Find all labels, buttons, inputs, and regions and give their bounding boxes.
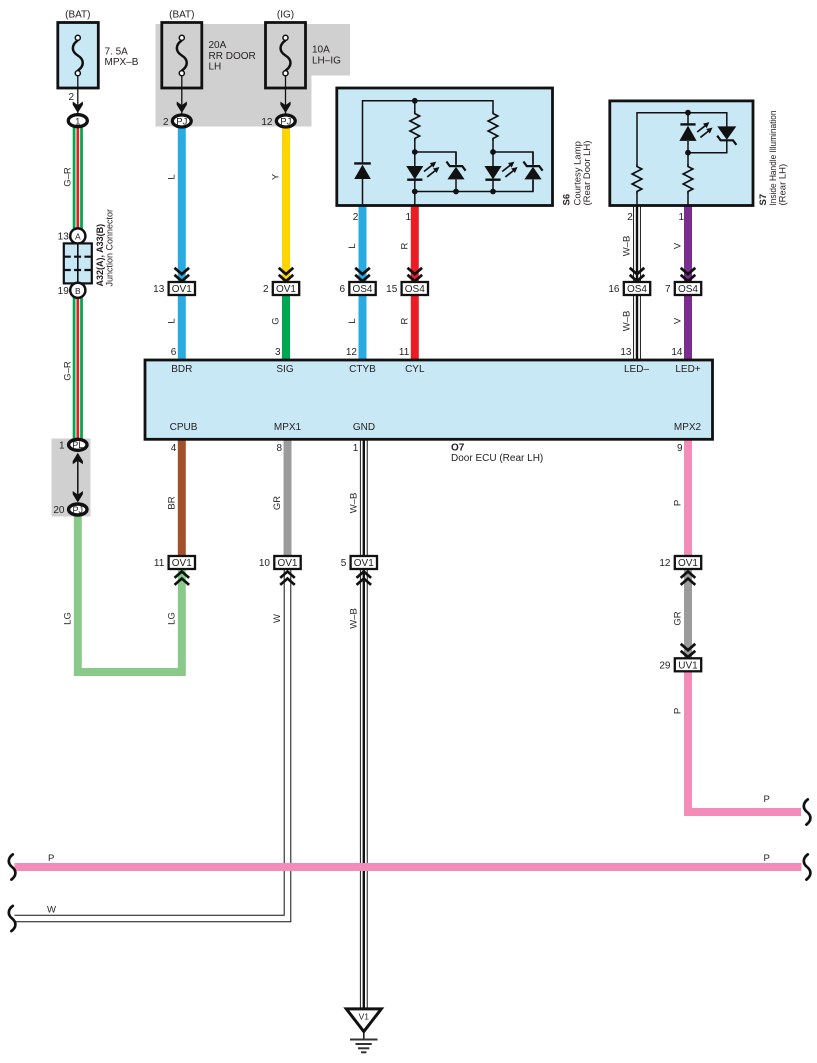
wire LG light green PJ down, bend right, up to 11 OV1 [78, 514, 182, 672]
svg-text:20: 20 [53, 505, 65, 516]
svg-text:GR: GR [272, 496, 283, 510]
svg-text:(Rear LH): (Rear LH) [778, 164, 789, 206]
svg-text:P: P [764, 853, 770, 864]
svg-text:3: 3 [275, 347, 281, 358]
svg-text:2: 2 [263, 284, 269, 295]
connector 29 UV1 [659, 644, 701, 672]
connector 5 OV1 [341, 556, 377, 585]
connector 12 PJ ellipse [276, 115, 295, 127]
connector 1 PL ellipse [69, 439, 87, 450]
svg-text:G–R: G–R [63, 167, 74, 187]
svg-text:1: 1 [678, 212, 684, 223]
svg-text:LED+: LED+ [675, 364, 700, 375]
node S7 top rail [685, 110, 691, 116]
wire W-B S7 pin2 to 16 OS4 [633, 204, 641, 283]
wire W-B ECU pin 1 GND to 5 OV1 [360, 438, 368, 557]
svg-text:P: P [673, 500, 684, 506]
wire L blue fuse2 PJ to 13 OV1 [178, 127, 186, 283]
wire P pink ECU pin 9 MPX2 to 12 OV1 [684, 438, 692, 557]
wire W-B 16 OS4 to ECU pin 13 LED- [633, 294, 641, 359]
double arrow between PL and PJ [73, 453, 83, 503]
resistor R4 S7 right [683, 164, 693, 194]
svg-text:6: 6 [171, 347, 177, 358]
resistor R1 S6 middle [410, 111, 420, 141]
wire S7 right lead to pin 1 [687, 153, 689, 205]
svg-text:12: 12 [659, 558, 671, 569]
svg-text:LED–: LED– [624, 364, 649, 375]
svg-text:10: 10 [259, 558, 271, 569]
svg-text:L: L [347, 318, 358, 323]
squiggle left end of W wire [9, 906, 16, 931]
svg-text:2: 2 [353, 212, 359, 223]
diode D1 S6 left [354, 163, 371, 205]
connector 2 PJ ellipse [172, 115, 191, 127]
node S6 right upper [490, 149, 496, 155]
LED right emission arrows [502, 162, 517, 177]
wire P pink main horizontal bus [15, 863, 802, 871]
svg-text:6: 6 [339, 284, 345, 295]
wire S6 bottom rail [415, 180, 533, 192]
svg-text:W–B: W–B [622, 311, 633, 332]
wire Y yellow fuse3 PJ to 2 OV1 [282, 127, 290, 283]
squiggle right end of P branch [804, 799, 811, 824]
svg-text:OV1: OV1 [276, 284, 296, 295]
svg-text:GR: GR [673, 611, 684, 625]
svg-text:11: 11 [154, 558, 165, 569]
arrow into connector 12 PJ [280, 102, 290, 114]
gray panel around PL/PJ connectors [52, 439, 91, 517]
svg-text:R: R [400, 317, 411, 324]
svg-text:PL: PL [72, 440, 83, 450]
connector 1 ellipse [68, 115, 87, 127]
svg-text:CPUB: CPUB [170, 422, 198, 433]
wire S6 middle branch [414, 101, 416, 111]
connector 12 OV1 [659, 556, 701, 585]
wire fuse3 to connector 12 PJ [285, 75, 287, 116]
svg-text:V1: V1 [359, 1012, 370, 1022]
svg-text:LG: LG [167, 612, 178, 625]
svg-text:19: 19 [58, 286, 70, 297]
fuse 20A RR DOOR LH box [162, 23, 202, 89]
svg-text:(IG): (IG) [277, 10, 294, 21]
svg-text:W–B: W–B [622, 236, 633, 257]
wire GR gray ECU pin 8 MPX1 to 10 OV1 [284, 438, 292, 557]
svg-text:W: W [47, 905, 56, 916]
svg-text:V: V [673, 242, 684, 249]
svg-text:Y: Y [271, 173, 282, 180]
wire L blue 13 OV1 to ECU pin 6 BDR [178, 294, 186, 359]
fuse 7.5A MPX-B box [58, 23, 99, 89]
svg-text:13: 13 [153, 284, 165, 295]
LED middle emission arrows [424, 162, 439, 177]
svg-text:G: G [271, 317, 282, 324]
svg-text:BDR: BDR [171, 364, 192, 375]
svg-text:5: 5 [341, 558, 347, 569]
svg-text:PJ: PJ [176, 117, 187, 128]
LED S7 emission arrows [697, 122, 712, 137]
svg-text:S6: S6 [562, 194, 573, 206]
connector 6 OS4 [339, 268, 375, 295]
svg-text:13: 13 [58, 232, 70, 243]
svg-text:OS4: OS4 [352, 284, 372, 295]
gray relay-block panel behind fuses RR DOOR LH / LH-IG [156, 24, 351, 127]
wire node to zener branch middle [415, 152, 456, 164]
svg-text:MPX1: MPX1 [274, 422, 302, 433]
wire G-R junction connector B to PL [73, 296, 83, 440]
svg-text:16: 16 [608, 284, 620, 295]
svg-text:(BAT): (BAT) [169, 10, 194, 21]
LED right S6 [484, 152, 501, 192]
svg-text:L: L [167, 318, 178, 323]
LED middle S6 [406, 152, 423, 192]
svg-text:4: 4 [171, 443, 177, 454]
svg-text:W: W [272, 614, 283, 623]
wire resistor2 to node [492, 141, 494, 152]
connector 15 OS4 [386, 268, 428, 295]
wire S7 top rail [637, 113, 727, 164]
fuse element symbol fuse3 [281, 35, 291, 76]
svg-text:LH–IG: LH–IG [312, 55, 341, 66]
svg-text:MPX–B: MPX–B [105, 57, 139, 68]
svg-text:A: A [75, 232, 81, 242]
svg-text:MPX2: MPX2 [674, 422, 702, 433]
svg-text:15: 15 [386, 284, 398, 295]
wire S6 pin1 lead [414, 192, 416, 206]
resistor R3 S7 left [632, 164, 642, 194]
squiggle right end of P bus [804, 854, 811, 879]
connector 16 OS4 [608, 268, 650, 295]
fuse element symbol fuse2 [177, 35, 187, 76]
svg-text:2: 2 [627, 212, 633, 223]
wire W-B 5 OV1 down to ground V1 [360, 568, 368, 1008]
zener diode right S6 [523, 152, 542, 192]
svg-text:P: P [673, 708, 684, 714]
svg-text:1: 1 [405, 212, 411, 223]
node S7 middle [685, 150, 691, 156]
svg-text:W–B: W–B [349, 493, 360, 514]
node S6 bottom LED right [490, 189, 496, 195]
svg-text:V: V [673, 317, 684, 324]
svg-text:14: 14 [671, 347, 683, 358]
svg-text:Junction Connector: Junction Connector [105, 209, 115, 287]
wire S6 top rail [363, 101, 494, 163]
wire G-R fuse1 to junction connector A [73, 127, 83, 231]
svg-text:1: 1 [75, 116, 80, 127]
ECU O7 Door ECU (Rear LH) box [145, 360, 713, 439]
wire GR gray 12 OV1 to 29 UV1 [684, 568, 692, 659]
svg-text:P: P [764, 794, 770, 805]
svg-text:12: 12 [346, 347, 358, 358]
svg-text:(BAT): (BAT) [65, 10, 90, 21]
LED S7 [679, 113, 696, 153]
zener diode middle S6 [446, 152, 465, 192]
arrow into connector 2 PJ [177, 102, 187, 114]
junction connector A circle [70, 228, 85, 243]
wire G green 2 OV1 to ECU pin 3 SIG [282, 294, 290, 359]
svg-text:PJ: PJ [280, 117, 291, 128]
svg-text:OS4: OS4 [678, 284, 698, 295]
svg-text:PJ: PJ [73, 505, 84, 515]
svg-text:Door ECU (Rear LH): Door ECU (Rear LH) [451, 453, 543, 464]
svg-text:11: 11 [399, 347, 410, 358]
fuse 10A LH-IG box [266, 23, 306, 89]
svg-text:B: B [75, 286, 81, 296]
svg-text:OV1: OV1 [277, 558, 297, 569]
wire S7 left lead to pin 2 [636, 194, 638, 205]
svg-text:7. 5A: 7. 5A [105, 47, 129, 58]
svg-text:GND: GND [353, 422, 375, 433]
connector 10 OV1 [259, 556, 301, 585]
svg-text:9: 9 [677, 443, 683, 454]
svg-text:LH: LH [209, 62, 222, 73]
svg-text:1: 1 [59, 441, 65, 452]
svg-text:1: 1 [353, 443, 359, 454]
svg-text:OV1: OV1 [172, 284, 192, 295]
squiggle left end of P bus [9, 854, 16, 879]
svg-text:R: R [400, 242, 411, 249]
wire V violet 7 OS4 to ECU pin 14 LED+ [684, 294, 692, 359]
wire W white 10 OV1 down, bend left to left edge [15, 568, 288, 919]
node S6 bottom zener middle [453, 189, 459, 195]
connector 20 PJ ellipse [69, 504, 87, 515]
node S6 top rail [412, 98, 418, 104]
resistor R2 S6 right [488, 111, 498, 141]
svg-text:2: 2 [68, 92, 74, 103]
svg-text:UV1: UV1 [678, 661, 698, 672]
node S6 middle upper [412, 149, 418, 155]
svg-text:OS4: OS4 [405, 284, 425, 295]
wire node to zener branch right [493, 152, 533, 164]
svg-text:OV1: OV1 [172, 558, 192, 569]
arrow into connector 1 [73, 102, 83, 114]
svg-text:LG: LG [63, 612, 74, 625]
junction connector A32/A33 box [64, 243, 92, 283]
svg-text:8: 8 [276, 443, 282, 454]
connector 7 OS4 [665, 268, 701, 295]
svg-text:OV1: OV1 [678, 558, 698, 569]
svg-text:P: P [48, 853, 54, 864]
wire BR brown ECU pin 4 CPUB to 11 OV1 [178, 438, 186, 557]
junction connector B circle [70, 283, 85, 298]
svg-text:SIG: SIG [276, 364, 293, 375]
svg-text:CYL: CYL [405, 364, 425, 375]
svg-text:29: 29 [659, 661, 671, 672]
wire L blue S6 pin2 to 6 OS4 [359, 204, 367, 283]
wire R red 15 OS4 to ECU pin 11 CYL [411, 294, 419, 359]
wire fuse2 to connector 2 PJ [181, 75, 183, 116]
wire fuse1 to connector 1 [77, 75, 79, 116]
wire R red S6 pin1 to 15 OS4 [411, 204, 419, 283]
svg-text:L: L [167, 174, 178, 179]
svg-text:13: 13 [620, 347, 632, 358]
svg-text:RR DOOR: RR DOOR [209, 51, 256, 62]
svg-text:10A: 10A [312, 45, 330, 56]
svg-text:12: 12 [261, 117, 273, 128]
svg-text:20A: 20A [209, 40, 227, 51]
wire resistor to node [414, 141, 416, 152]
node S6 bottom LED middle [412, 189, 418, 195]
svg-text:G–R: G–R [63, 361, 74, 381]
connector 13 OV1 [153, 268, 195, 295]
zener diode S7 [688, 126, 736, 152]
svg-text:2: 2 [163, 117, 169, 128]
ground V1 symbol [346, 1009, 381, 1052]
svg-text:A32(A), A33(B): A32(A), A33(B) [95, 224, 105, 287]
svg-text:BR: BR [167, 496, 178, 509]
svg-text:L: L [347, 243, 358, 248]
connector 11 OV1 [154, 556, 195, 585]
S6 Courtesy Lamp box [337, 88, 553, 206]
svg-text:(Rear Door LH): (Rear Door LH) [582, 141, 593, 206]
svg-text:7: 7 [665, 284, 671, 295]
wire L blue 6 OS4 to ECU pin 12 CTYB [359, 294, 367, 359]
connector 2 OV1 [263, 268, 299, 295]
svg-text:OS4: OS4 [627, 284, 647, 295]
svg-text:OV1: OV1 [354, 558, 374, 569]
svg-text:W–B: W–B [349, 608, 360, 629]
wire V violet S7 pin1 to 7 OS4 [684, 204, 692, 283]
wire P pink 29 UV1 down, bend right to right edge [688, 671, 801, 813]
S7 Inside Handle Illumination box [610, 101, 753, 206]
fuse element symbol fuse1 [73, 35, 83, 76]
svg-text:CTYB: CTYB [349, 364, 376, 375]
